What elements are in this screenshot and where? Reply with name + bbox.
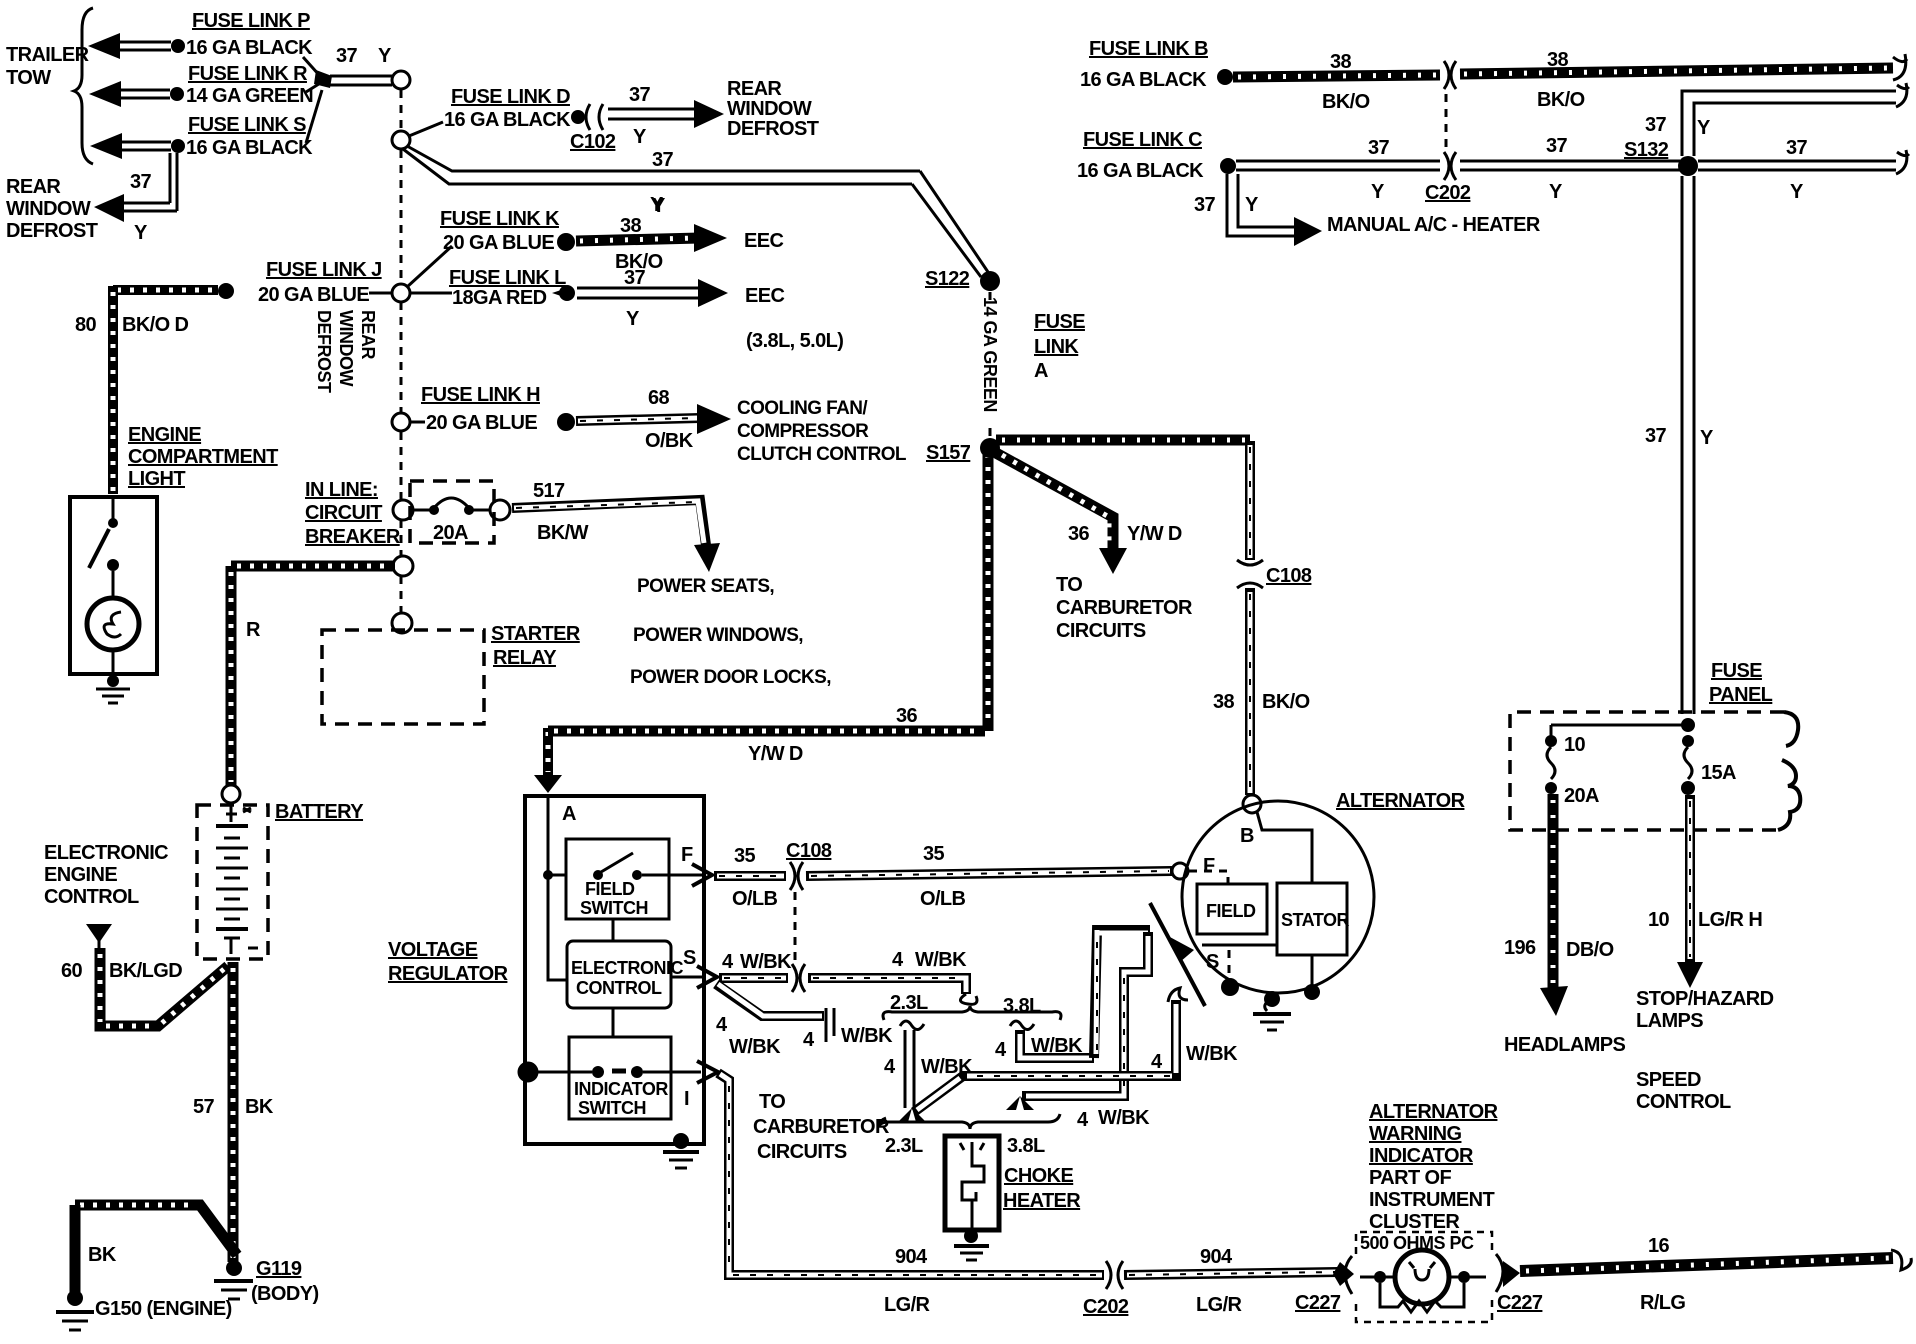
svg-text:CHOKE: CHOKE: [1004, 1165, 1073, 1187]
svg-text:FUSE LINK J: FUSE LINK J: [266, 259, 382, 281]
svg-text:Y: Y: [633, 126, 647, 148]
svg-text:37: 37: [1546, 135, 1568, 157]
wire 35 O/LB to alternator F: [806, 871, 1172, 876]
battery plates: [216, 806, 258, 954]
svg-text:37: 37: [652, 149, 674, 171]
connector ring at top of dashed bus: [392, 71, 410, 89]
label 4 / W/BK (3.8L hook): [995, 1035, 1083, 1061]
svg-text:Y: Y: [1697, 117, 1711, 139]
svg-text:4: 4: [884, 1056, 896, 1078]
engine compartment light box: [70, 497, 157, 674]
I terminal chevron: [697, 1061, 718, 1083]
svg-text:C108: C108: [1266, 565, 1312, 587]
shunt resistor: [1380, 1283, 1464, 1312]
wires converging to junction node: [303, 57, 332, 143]
svg-text:36: 36: [1068, 523, 1090, 545]
svg-text:Y: Y: [378, 45, 392, 67]
labels 196 DB/O: [1504, 937, 1614, 961]
label ENGINE COMPARTMENT LIGHT: [128, 424, 278, 490]
fuse 20A: [1545, 734, 1599, 807]
label STOP/HAZARD LAMPS: [1636, 988, 1774, 1032]
circuit breaker box: [393, 481, 510, 544]
svg-text:20 GA BLUE: 20 GA BLUE: [426, 412, 537, 434]
fuse link J wire (hatched): [113, 283, 392, 299]
svg-text:TRAILER: TRAILER: [6, 44, 90, 66]
svg-text:W/BK: W/BK: [841, 1025, 893, 1047]
svg-text:35: 35: [734, 845, 756, 867]
svg-text:ENGINE: ENGINE: [44, 864, 117, 886]
svg-text:LINK: LINK: [1034, 336, 1079, 358]
svg-text:REAR: REAR: [727, 78, 782, 100]
svg-text:ELECTRONIC: ELECTRONIC: [571, 958, 684, 978]
dashed drop from C108 to S connector: [794, 892, 797, 966]
svg-text:A: A: [1034, 360, 1048, 382]
wire 14 GA GREEN riser S157 to junction: [983, 448, 994, 731]
S wire diagonal to alternator: [1150, 903, 1205, 1006]
wire 36 Y/W D horizontal: [548, 726, 985, 737]
connector ring (starter relay): [392, 613, 412, 633]
svg-text:14 GA GREEN: 14 GA GREEN: [980, 297, 1000, 412]
fuse panel internal bus: [1551, 718, 1695, 736]
svg-text:STOP/HAZARD: STOP/HAZARD: [1636, 988, 1774, 1010]
labels 35 O/LB: [732, 843, 966, 910]
svg-text:CONTROL: CONTROL: [1636, 1091, 1731, 1113]
fuse link L lead: [410, 292, 452, 295]
fuse link D arrow wire to rear window defrost: [608, 100, 724, 128]
svg-text:S122: S122: [925, 268, 970, 290]
svg-text:S157: S157: [926, 442, 971, 464]
svg-text:TO: TO: [1056, 574, 1082, 596]
svg-text:C227: C227: [1497, 1292, 1543, 1314]
svg-text:C108: C108: [786, 840, 832, 862]
svg-text:Y/W D: Y/W D: [748, 743, 803, 765]
labels 37 Y (drop): [1194, 194, 1259, 216]
third stair hook wire to lower brace: [914, 988, 1188, 1112]
S dashed lead: [1228, 950, 1231, 978]
svg-text:POWER SEATS,: POWER SEATS,: [637, 576, 774, 597]
svg-text:S132: S132: [1624, 139, 1669, 161]
lamp switch inside: [89, 499, 119, 597]
wire 2.3L drop (dash-dot vertical): [898, 1021, 926, 1122]
S terminal dot: [1221, 978, 1239, 996]
label 4 W/BK (left of connector): [722, 951, 792, 973]
svg-text:VOLTAGE: VOLTAGE: [388, 939, 478, 961]
svg-text:14 GA GREEN: 14 GA GREEN: [186, 85, 313, 107]
wire vertical to C108: [1245, 441, 1255, 560]
svg-text:PANEL: PANEL: [1709, 684, 1773, 706]
svg-text:WINDOW: WINDOW: [336, 310, 356, 386]
svg-text:F: F: [681, 844, 693, 866]
F terminal ring: [1172, 863, 1188, 879]
svg-text:20 GA BLUE: 20 GA BLUE: [443, 232, 554, 254]
wire 37 manual AC heater drop: [1227, 174, 1322, 246]
svg-text:DB/O: DB/O: [1566, 939, 1614, 961]
svg-text:COOLING FAN/: COOLING FAN/: [737, 398, 868, 419]
fuse link R arrow: [89, 81, 184, 107]
wire 80 BK/O D vertical: [108, 286, 118, 494]
svg-text:ENGINE: ENGINE: [128, 424, 201, 446]
S terminal chevron: [697, 966, 717, 988]
svg-text:W/BK: W/BK: [1031, 1035, 1083, 1057]
B terminal ring: [1243, 795, 1261, 813]
svg-text:16 GA BLACK: 16 GA BLACK: [444, 109, 571, 131]
wire S157 to C108 (B feed) horizontal: [996, 435, 1250, 446]
svg-text:37: 37: [336, 45, 358, 67]
labels 904 LG/R C202: [884, 1246, 1243, 1318]
svg-text:BK/O D: BK/O D: [122, 314, 189, 336]
svg-text:SWITCH: SWITCH: [578, 1098, 646, 1118]
label FUSE PANEL: [1709, 660, 1773, 706]
svg-text:PART OF: PART OF: [1369, 1167, 1451, 1189]
svg-text:CARBURETOR: CARBURETOR: [753, 1116, 890, 1138]
svg-text:Y: Y: [1371, 181, 1385, 203]
svg-text:REGULATOR: REGULATOR: [388, 963, 509, 985]
svg-text:STATOR: STATOR: [1281, 910, 1349, 930]
svg-text:BK: BK: [245, 1096, 274, 1118]
svg-text:2.3L: 2.3L: [890, 992, 928, 1014]
svg-text:W/BK: W/BK: [740, 951, 792, 973]
svg-text:2.3L: 2.3L: [885, 1135, 923, 1157]
fuse 15A: [1681, 735, 1736, 795]
alternator case ground: [1253, 991, 1291, 1030]
svg-text:Y/W D: Y/W D: [1127, 523, 1182, 545]
svg-text:G150 (ENGINE): G150 (ENGINE): [95, 1298, 232, 1320]
svg-text:FUSE: FUSE: [1034, 311, 1085, 333]
label 36 Y/W D (diagonal): [1068, 523, 1182, 545]
svg-text:C227: C227: [1295, 1292, 1341, 1314]
fuse link D dot and C102 connector: [571, 104, 603, 130]
stator bottom dot: [1304, 984, 1320, 1000]
fuse link P arrow: [88, 33, 185, 59]
svg-text:MANUAL A/C - HEATER: MANUAL A/C - HEATER: [1327, 214, 1541, 236]
fuse link S arrow: [90, 133, 185, 159]
S internal line: [1202, 944, 1277, 947]
svg-text:FUSE: FUSE: [1711, 660, 1762, 682]
svg-text:POWER WINDOWS,: POWER WINDOWS,: [633, 625, 803, 646]
label 4 W/BK (inner staircase): [1077, 1107, 1150, 1131]
label TRAILER TOW: [6, 44, 90, 89]
svg-text:3.8L: 3.8L: [1007, 1135, 1045, 1157]
svg-text:CARBURETOR: CARBURETOR: [1056, 597, 1193, 619]
wire 38 BK/O thick (right half): [1460, 54, 1907, 80]
svg-text:BK: BK: [88, 1244, 117, 1266]
svg-text:C202: C202: [1425, 182, 1471, 204]
label 37 / Y (D row): [629, 84, 651, 148]
label 68 / O/BK: [645, 387, 694, 452]
svg-text:4: 4: [1151, 1051, 1163, 1073]
svg-text:57: 57: [193, 1096, 215, 1118]
F dashed lead: [1189, 871, 1228, 884]
B internal lead: [1257, 812, 1312, 882]
wire S132 down to fuse panel: [1682, 176, 1694, 714]
svg-text:BK/O: BK/O: [1322, 91, 1370, 113]
svg-text:W/BK: W/BK: [915, 949, 967, 971]
stator bottom lead: [1311, 955, 1314, 990]
internal node line A: [543, 796, 567, 980]
wire 14 GA GREEN label (rotated) with dashes: [980, 292, 1000, 436]
labels 16 R/LG: [1640, 1235, 1685, 1314]
fuse link B dot: [1217, 69, 1233, 85]
dashed bus wire x=400: [400, 90, 403, 614]
svg-text:37: 37: [1645, 114, 1667, 136]
svg-text:37: 37: [1786, 137, 1808, 159]
svg-text:CONTROL: CONTROL: [44, 886, 139, 908]
wire junction to circle: [330, 76, 392, 85]
starter relay dashed box: [322, 630, 484, 724]
svg-text:60: 60: [61, 960, 83, 982]
wire 37 Y double line (left of C202): [1236, 161, 1440, 170]
svg-text:Y: Y: [1245, 194, 1259, 216]
svg-text:C102: C102: [570, 131, 616, 153]
svg-text:POWER DOOR LOCKS,: POWER DOOR LOCKS,: [630, 667, 831, 688]
label REAR WINDOW DEFROST (left): [6, 176, 98, 242]
svg-text:CLUSTER: CLUSTER: [1369, 1211, 1460, 1233]
svg-text:REAR: REAR: [6, 176, 61, 198]
electronic control box: [567, 919, 704, 1037]
svg-text:LG/R: LG/R: [884, 1294, 931, 1316]
svg-text:15A: 15A: [1701, 762, 1736, 784]
fuse link L dot and EEC arrow: [552, 279, 728, 307]
svg-text:FUSE LINK S: FUSE LINK S: [188, 114, 306, 136]
voltage regulator box: [525, 796, 704, 1144]
svg-text:BK/O: BK/O: [1537, 89, 1585, 111]
fuse link K dot and EEC arrow (hatched heavy): [557, 224, 727, 252]
svg-text:4: 4: [1077, 1109, 1089, 1131]
svg-text:FIELD: FIELD: [1206, 901, 1256, 921]
labels 37 Y (riser): [1645, 425, 1714, 449]
svg-text:COMPARTMENT: COMPARTMENT: [128, 446, 278, 468]
C227 connector right: [1496, 1254, 1543, 1314]
label 37 / Y (L row): [624, 267, 646, 330]
svg-text:CIRCUITS: CIRCUITS: [1056, 620, 1146, 642]
connector ring (fuse link D row): [392, 131, 410, 149]
trailer tow bracket: [74, 8, 93, 164]
label POWER SEATS etc: [630, 576, 831, 688]
C227 connector left: [1295, 1256, 1354, 1314]
svg-text:FUSE LINK R: FUSE LINK R: [188, 63, 308, 85]
labels 10 LG/R H: [1648, 909, 1762, 931]
svg-text:20 GA BLUE: 20 GA BLUE: [258, 284, 369, 306]
long 37 double wire from ring to S122: [403, 146, 988, 277]
svg-text:CIRCUIT: CIRCUIT: [305, 502, 382, 524]
svg-text:O/LB: O/LB: [732, 888, 778, 910]
svg-text:FIELD: FIELD: [585, 879, 635, 899]
ground below light: [96, 675, 130, 703]
svg-text:38: 38: [1330, 51, 1352, 73]
svg-text:FUSE LINK L: FUSE LINK L: [449, 267, 566, 289]
wire S132 up and right: [1682, 83, 1909, 156]
svg-text:TOW: TOW: [6, 67, 51, 89]
svg-text:CIRCUITS: CIRCUITS: [757, 1141, 847, 1163]
S157 junction: [926, 438, 1000, 464]
connector ring (J/K/L junction): [392, 284, 410, 302]
label 4 W/BK (above wire): [892, 949, 967, 971]
wire 60 BK/LGD: [100, 948, 228, 1026]
svg-text:LG/R H: LG/R H: [1698, 909, 1762, 931]
A terminal arrow (wire 36 into regulator): [534, 728, 562, 793]
svg-text:INSTRUMENT: INSTRUMENT: [1369, 1189, 1494, 1211]
svg-text:DEFROST: DEFROST: [727, 118, 819, 140]
svg-text:I: I: [684, 1088, 689, 1110]
label ALTERNATOR WARNING INDICATOR PART OF INSTRUMENT CLUSTER: [1369, 1101, 1499, 1233]
svg-text:16 GA BLACK: 16 GA BLACK: [1077, 160, 1204, 182]
label 38 / Y / BK/O: [615, 195, 666, 273]
svg-text:FUSE LINK D: FUSE LINK D: [451, 86, 570, 108]
label 60 / BK/LGD: [61, 960, 182, 982]
wire 4 W/BK connector to 2.3L hook: [808, 978, 977, 1004]
label FUSE LINK A: [1034, 311, 1085, 382]
svg-text:BREAKER: BREAKER: [305, 526, 401, 548]
label CHOKE HEATER: [1003, 1165, 1081, 1212]
svg-text:S: S: [1206, 951, 1219, 973]
svg-text:16 GA BLACK: 16 GA BLACK: [186, 137, 313, 159]
svg-text:38: 38: [620, 215, 642, 237]
staircase outer wire to S diagonal: [1094, 930, 1150, 1058]
svg-text:S: S: [683, 947, 696, 969]
battery dashed box: [197, 805, 268, 959]
svg-text:Y: Y: [1790, 181, 1804, 203]
in line circuit breaker labels: [305, 479, 401, 548]
svg-text:3.8L: 3.8L: [1003, 995, 1041, 1017]
svg-text:FUSE LINK H: FUSE LINK H: [421, 384, 540, 406]
svg-text:37: 37: [1645, 425, 1667, 447]
field switch box: [566, 839, 704, 919]
wire S diagonal branch down: [716, 984, 834, 1042]
svg-text:DEFROST: DEFROST: [314, 310, 334, 393]
connector C108 (B wire): [1237, 560, 1312, 588]
svg-text:(BODY): (BODY): [251, 1283, 319, 1305]
svg-text:4: 4: [892, 949, 904, 971]
svg-text:68: 68: [648, 387, 670, 409]
staircase inner wire: [1006, 932, 1148, 1110]
label COOLING FAN / COMPRESSOR CLUTCH CONTROL: [737, 398, 907, 465]
svg-text:EEC: EEC: [744, 230, 783, 252]
choke heater ground: [954, 1229, 989, 1260]
connector (S wire): [792, 964, 805, 992]
upper brace 2.3L / 3.8L: [883, 992, 1061, 1020]
500 ohms dashed box: [1356, 1232, 1492, 1322]
label 37 / Y (left defrost): [130, 171, 152, 244]
S132 junction: [1624, 139, 1698, 176]
svg-text:BATTERY: BATTERY: [275, 801, 364, 823]
wire 904 to C227: [1124, 1272, 1338, 1275]
svg-text:BK/W: BK/W: [537, 522, 589, 544]
svg-text:38: 38: [1213, 691, 1235, 713]
connector C202 (904 wire): [1106, 1261, 1123, 1289]
svg-text:517: 517: [533, 480, 565, 502]
svg-text:RELAY: RELAY: [493, 647, 557, 669]
svg-text:TO: TO: [759, 1091, 785, 1113]
label 4 / W/BK (2.3L drop): [884, 1056, 973, 1078]
wire 3.8L hook down to staircase: [1010, 1021, 1094, 1058]
label TO CARBURETOR CIRCUITS (lower): [753, 1091, 890, 1163]
alternator body circle: [1182, 801, 1374, 993]
wire 35 O/LB to C108: [714, 871, 786, 881]
svg-text:16 GA BLACK: 16 GA BLACK: [186, 37, 313, 59]
wire 38 BK/O thick (left half): [1233, 75, 1440, 77]
wire 4 W/BK from S to connector: [719, 973, 788, 983]
label 80 / BK/O D: [75, 314, 189, 336]
fuse link H dot and cooling fan arrow (hollow hatched): [557, 404, 731, 434]
label 4 / W/BK (right stair): [1151, 1043, 1238, 1073]
svg-text:37: 37: [629, 84, 651, 106]
label G119 (BODY): [251, 1258, 319, 1305]
svg-text:CONTROL: CONTROL: [576, 978, 662, 998]
svg-text:4: 4: [803, 1029, 815, 1051]
svg-text:FUSE LINK P: FUSE LINK P: [192, 10, 310, 32]
wire R from junction to battery: [222, 566, 395, 803]
svg-text:10: 10: [1564, 734, 1586, 756]
svg-text:C202: C202: [1083, 1296, 1129, 1318]
label 517 / BK/W: [533, 480, 589, 544]
svg-text:LG/R: LG/R: [1196, 1294, 1243, 1316]
svg-text:INDICATOR: INDICATOR: [1369, 1145, 1474, 1167]
connector C202 (top): [1425, 152, 1471, 204]
connector C108 (F wire): [786, 840, 832, 890]
fuse link K lead: [407, 246, 452, 287]
wire C108 to alternator B: [1245, 588, 1255, 795]
S122 junction: [925, 268, 1000, 291]
svg-text:36: 36: [896, 705, 918, 727]
svg-text:WINDOW: WINDOW: [727, 98, 812, 120]
labels 37 Y (upper right): [1368, 114, 1808, 203]
svg-text:FUSE LINK B: FUSE LINK B: [1089, 38, 1208, 60]
dashed link C202 (top): [1445, 94, 1448, 148]
lower brace 2.3L / 3.8L: [878, 1114, 1060, 1157]
svg-text:HEATER: HEATER: [1003, 1190, 1081, 1212]
svg-text:37: 37: [1368, 137, 1390, 159]
ground G119: [214, 1260, 253, 1299]
wire 10 LG/R H below panel: [1677, 795, 1703, 988]
label 57 / BK: [193, 1096, 274, 1118]
svg-text:BK/LGD: BK/LGD: [109, 960, 182, 982]
wire S157 diagonal to carburetor: [996, 453, 1127, 574]
svg-text:4: 4: [722, 951, 734, 973]
svg-text:80: 80: [75, 314, 97, 336]
svg-text:Y: Y: [134, 222, 148, 244]
node dot on left edge: [519, 1063, 537, 1081]
svg-text:904: 904: [895, 1246, 928, 1268]
517 BK/W wire with down arrow: [512, 500, 720, 572]
svg-text:EEC: EEC: [745, 285, 784, 307]
svg-text:LAMPS: LAMPS: [1636, 1010, 1703, 1032]
F terminal chevron: [692, 864, 712, 886]
wire 196 DB/O below panel: [1540, 794, 1568, 1016]
svg-text:904: 904: [1200, 1246, 1233, 1268]
connector ring (R wire junction): [393, 556, 413, 576]
svg-text:COMPRESSOR: COMPRESSOR: [737, 421, 869, 442]
svg-text:G119: G119: [256, 1258, 302, 1280]
svg-text:37: 37: [130, 171, 152, 193]
label REAR WINDOW DEFROST (rotated): [314, 310, 378, 393]
svg-text:38: 38: [1547, 49, 1569, 71]
svg-text:W/BK: W/BK: [1098, 1107, 1150, 1129]
label SPEED CONTROL: [1636, 1069, 1731, 1113]
regulator ground: [663, 1133, 699, 1168]
svg-text:ALTERNATOR: ALTERNATOR: [1369, 1101, 1499, 1123]
svg-text:16: 16: [1648, 1235, 1670, 1257]
svg-text:R/LG: R/LG: [1640, 1292, 1685, 1314]
svg-text:WARNING: WARNING: [1369, 1123, 1462, 1145]
svg-text:Y: Y: [1549, 181, 1563, 203]
svg-text:4: 4: [716, 1014, 728, 1036]
wire 37 Y to S132: [1460, 161, 1680, 170]
label ELECTRONIC ENGINE CONTROL: [44, 842, 168, 908]
svg-text:20A: 20A: [433, 522, 468, 544]
svg-text:WINDOW: WINDOW: [6, 198, 91, 220]
ground G150: [56, 1290, 94, 1330]
svg-text:35: 35: [923, 843, 945, 865]
